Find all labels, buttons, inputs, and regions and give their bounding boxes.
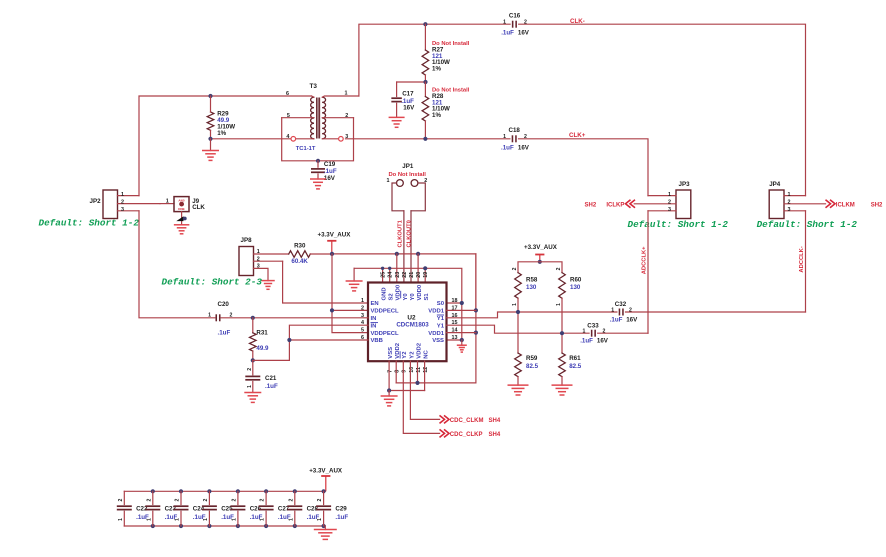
svg-text:2: 2 xyxy=(345,113,348,119)
connector J9 CLK xyxy=(160,197,205,225)
svg-text:JP2: JP2 xyxy=(90,198,102,205)
svg-text:2: 2 xyxy=(118,499,124,502)
svg-text:Y1: Y1 xyxy=(437,323,445,329)
svg-text:R59: R59 xyxy=(526,355,538,362)
capacitor C26 xyxy=(230,491,262,526)
svg-text:9: 9 xyxy=(402,370,408,373)
capacitor C32 xyxy=(610,301,638,324)
svg-text:T3: T3 xyxy=(309,83,317,90)
svg-text:130: 130 xyxy=(526,284,537,291)
svg-text:C21: C21 xyxy=(265,375,277,382)
svg-text:VBB: VBB xyxy=(371,338,383,344)
svg-text:Default: Short 2-3: Default: Short 2-3 xyxy=(162,277,263,288)
svg-text:+3.3V_AUX: +3.3V_AUX xyxy=(318,232,352,239)
net label ADCCLK- xyxy=(799,246,805,272)
label Default: Short 1-2 (JP2) xyxy=(39,218,140,229)
svg-text:5: 5 xyxy=(361,328,364,334)
svg-text:CLK+: CLK+ xyxy=(569,132,586,139)
svg-text:R31: R31 xyxy=(256,330,268,337)
svg-text:S0: S0 xyxy=(437,301,445,307)
svg-text:U2: U2 xyxy=(407,314,416,321)
svg-text:Y2: Y2 xyxy=(409,351,415,359)
svg-text:3: 3 xyxy=(668,207,671,213)
transformer T3 xyxy=(282,83,359,152)
svg-text:ICLKP: ICLKP xyxy=(606,202,624,208)
svg-text:2: 2 xyxy=(146,499,152,502)
svg-text:R58: R58 xyxy=(526,276,538,283)
svg-text:Default: Short 1-2: Default: Short 1-2 xyxy=(757,219,858,230)
svg-text:VSS: VSS xyxy=(432,338,444,344)
svg-text:C20: C20 xyxy=(218,301,230,308)
svg-text:130: 130 xyxy=(570,284,581,291)
svg-text:1: 1 xyxy=(208,313,211,319)
svg-text:C16: C16 xyxy=(509,13,521,20)
node R29 bottom / T3 pin4 xyxy=(208,137,291,151)
svg-text:3: 3 xyxy=(121,207,124,213)
svg-text:S2: S2 xyxy=(389,293,395,301)
svg-text:VDDPECL: VDDPECL xyxy=(371,309,400,315)
svg-text:1: 1 xyxy=(788,192,791,198)
svg-text:C33: C33 xyxy=(587,323,599,330)
svg-text:18: 18 xyxy=(452,298,458,304)
svg-text:1: 1 xyxy=(146,518,152,521)
svg-text:.1uF: .1uF xyxy=(335,514,348,521)
svg-text:CDC_CLKP: CDC_CLKP xyxy=(450,432,483,438)
svg-text:Y0: Y0 xyxy=(410,293,416,301)
svg-text:1: 1 xyxy=(203,518,209,521)
svg-text:VDD2: VDD2 xyxy=(416,342,422,358)
svg-text:VDD0: VDD0 xyxy=(417,284,423,300)
capacitor C29 xyxy=(316,491,348,526)
svg-text:1: 1 xyxy=(387,178,390,184)
svg-text:3: 3 xyxy=(345,134,348,140)
svg-text:7: 7 xyxy=(388,370,394,373)
svg-text:1: 1 xyxy=(175,518,181,521)
svg-text:CDC_CLKM: CDC_CLKM xyxy=(450,418,484,424)
svg-text:.1uF: .1uF xyxy=(218,330,231,337)
capacitor C21 xyxy=(245,360,278,392)
svg-text:C29: C29 xyxy=(335,505,347,512)
wire CLK+ net xyxy=(346,137,649,196)
svg-text:1: 1 xyxy=(288,518,294,521)
off-page arrow ICLKM SH2 xyxy=(826,200,884,209)
wire CDC_CLKP net (U2 pin9) xyxy=(403,361,439,433)
label Default: Short 2-3 (JP8) xyxy=(162,277,263,288)
svg-text:22: 22 xyxy=(402,272,408,278)
svg-text:AN5: AN5 xyxy=(178,199,184,203)
svg-text:DNE: DNE xyxy=(178,207,185,211)
power +3.3V_AUX at cap bank xyxy=(309,468,343,492)
svg-text:1: 1 xyxy=(317,518,323,521)
ground below C17 xyxy=(389,117,405,127)
wire U2 pin17/pin14 VDD1 stubs xyxy=(447,310,476,332)
svg-text:19: 19 xyxy=(423,272,429,278)
wire IN net (C20 to U2 pin3) xyxy=(221,316,368,320)
off-page arrow CDC_CLKM SH4 xyxy=(440,415,501,424)
svg-text:11: 11 xyxy=(416,367,422,373)
svg-text:R30: R30 xyxy=(294,243,306,250)
svg-text:+3.3V_AUX: +3.3V_AUX xyxy=(524,244,558,251)
wire CLK- net (top rail) xyxy=(359,22,806,196)
svg-text:4: 4 xyxy=(286,134,289,140)
svg-text:2: 2 xyxy=(603,329,606,335)
svg-text:8: 8 xyxy=(395,370,401,373)
wire VDD2 net (U2 pins 8,11 to +3.3V) xyxy=(396,254,478,385)
svg-text:IN: IN xyxy=(371,316,377,322)
svg-text:1: 1 xyxy=(118,518,124,521)
svg-text:24: 24 xyxy=(388,272,394,278)
wire primary top net (T3 pin6 / R29 / JP2 pin1) xyxy=(139,94,312,196)
wire ADCCLK- net (JP4 pin3 down) xyxy=(805,211,807,312)
net label CLK- xyxy=(570,18,585,25)
svg-text:2: 2 xyxy=(121,200,124,206)
capacitor C22 xyxy=(117,491,149,526)
svg-text:2: 2 xyxy=(668,200,671,206)
svg-text:C17: C17 xyxy=(402,90,414,97)
capacitor C24 xyxy=(174,491,206,526)
capacitor C16 xyxy=(501,13,530,37)
net label ADCCLK+ xyxy=(642,246,648,274)
ground below R59 xyxy=(508,385,529,395)
svg-text:82.5: 82.5 xyxy=(569,363,582,370)
svg-text:SH2: SH2 xyxy=(871,202,883,208)
jumper JP1 (Do Not Install) xyxy=(387,163,428,211)
resistor R61 xyxy=(559,333,582,385)
svg-text:2: 2 xyxy=(260,499,266,502)
ground below U2 pin7 xyxy=(381,391,398,406)
svg-text:21: 21 xyxy=(409,272,415,278)
svg-text:+3.3V_AUX: +3.3V_AUX xyxy=(309,468,343,475)
wire R58/R60 top rail xyxy=(518,262,562,273)
capacitor C18 xyxy=(501,127,530,151)
capacitor C25 xyxy=(202,491,234,526)
svg-text:.1uF: .1uF xyxy=(501,145,514,152)
svg-text:2: 2 xyxy=(230,313,233,319)
svg-text:JP1: JP1 xyxy=(402,163,414,170)
svg-text:C18: C18 xyxy=(509,127,521,134)
svg-text:NC: NC xyxy=(424,349,430,358)
svg-text:1: 1 xyxy=(345,91,348,97)
svg-text:CLK-: CLK- xyxy=(570,18,585,25)
svg-text:1: 1 xyxy=(668,192,671,198)
svg-text:.1uF: .1uF xyxy=(324,168,337,175)
svg-text:82.5: 82.5 xyxy=(526,363,539,370)
ground below JP8 pin3 xyxy=(261,281,275,290)
off-page arrow ICLKP SH2 xyxy=(585,200,635,209)
svg-text:Y0: Y0 xyxy=(403,293,409,301)
svg-text:1: 1 xyxy=(121,192,124,198)
capacitor C17 xyxy=(391,82,415,117)
svg-text:2: 2 xyxy=(175,499,181,502)
resistor R29 xyxy=(207,96,235,139)
svg-text:Y2: Y2 xyxy=(402,351,408,359)
svg-text:49.9: 49.9 xyxy=(256,345,269,352)
wire T3 center-tap box to C19 xyxy=(282,118,354,163)
svg-text:ADCCLK+: ADCCLK+ xyxy=(642,246,648,274)
wire VDD0 stubs (U2 pins 23,20) xyxy=(397,254,418,283)
svg-text:IN: IN xyxy=(371,323,377,329)
svg-text:20: 20 xyxy=(416,272,422,278)
power +3.3V_AUX at R58/R60 xyxy=(524,244,558,264)
resistor R60 xyxy=(556,267,582,333)
svg-text:16V: 16V xyxy=(518,145,530,152)
svg-text:2: 2 xyxy=(288,499,294,502)
svg-text:1: 1 xyxy=(503,20,506,26)
wire Y1b/C32/ADCCLK- net xyxy=(447,310,806,318)
capacitor C23 xyxy=(145,491,177,526)
resistor R59 xyxy=(515,312,539,385)
svg-text:5: 5 xyxy=(287,113,290,119)
net label CLK+ xyxy=(569,132,586,139)
svg-text:CDCM1803: CDCM1803 xyxy=(396,321,429,328)
svg-text:CLKOUT0: CLKOUT0 xyxy=(406,220,412,247)
svg-text:SH2: SH2 xyxy=(585,202,597,208)
resistor R30 xyxy=(289,243,311,265)
svg-text:2: 2 xyxy=(788,200,791,206)
svg-text:2: 2 xyxy=(247,368,253,371)
ground below C19 xyxy=(310,179,326,189)
svg-text:Y1: Y1 xyxy=(437,316,445,322)
svg-text:JP3: JP3 xyxy=(679,181,691,188)
svg-text:1%: 1% xyxy=(217,130,226,137)
svg-text:1: 1 xyxy=(260,518,266,521)
ground below J9 xyxy=(174,225,190,234)
svg-text:R60: R60 xyxy=(570,276,582,283)
svg-text:1: 1 xyxy=(503,134,506,140)
capacitor C27 xyxy=(259,491,291,526)
wire VSS net (U2 pins 7,12) xyxy=(387,361,425,392)
svg-text:60.4K: 60.4K xyxy=(291,258,308,265)
ground below R29 xyxy=(202,151,219,161)
svg-text:3: 3 xyxy=(788,207,791,213)
svg-text:2: 2 xyxy=(524,134,527,140)
power +3.3V_AUX at R30 xyxy=(318,232,352,254)
svg-text:.1uF: .1uF xyxy=(580,338,593,345)
svg-text:ADCCLK-: ADCCLK- xyxy=(799,246,805,272)
svg-text:VSS: VSS xyxy=(388,347,394,359)
wire ADCCLK+ net (JP3 pin3 down) xyxy=(647,211,649,333)
svg-text:SH4: SH4 xyxy=(489,418,501,424)
svg-text:ICLKM: ICLKM xyxy=(836,202,855,208)
ground at S-net left xyxy=(346,281,363,291)
svg-text:SH4: SH4 xyxy=(489,432,501,438)
svg-text:2: 2 xyxy=(556,267,562,270)
jumper JP3 xyxy=(634,181,691,219)
svg-text:VDD1: VDD1 xyxy=(428,309,444,315)
svg-text:2: 2 xyxy=(629,307,632,313)
wire EN net (JP8 pin2 to U2 pin1) xyxy=(283,261,368,303)
svg-text:C19: C19 xyxy=(324,161,336,168)
off-page arrow CDC_CLKP SH4 xyxy=(440,429,501,438)
ground below C21 xyxy=(244,393,261,403)
wire +3.3V_AUX rail to U2 xyxy=(310,252,476,311)
svg-text:3: 3 xyxy=(257,264,260,270)
svg-text:16V: 16V xyxy=(403,105,415,112)
svg-text:JP8: JP8 xyxy=(241,237,253,244)
svg-text:1: 1 xyxy=(231,518,237,521)
capacitor C28 xyxy=(287,491,319,526)
svg-text:1: 1 xyxy=(361,298,364,304)
label Default: Short 1-2 (JP4) xyxy=(757,219,858,230)
svg-text:12: 12 xyxy=(423,367,429,373)
ground below R61 xyxy=(552,385,573,395)
svg-text:TC1-1T: TC1-1T xyxy=(296,146,316,152)
jumper JP2 xyxy=(90,190,161,219)
wire CLKOUT1 (JP1 to U2 pin22) xyxy=(403,211,405,283)
net label CLKOUT1 xyxy=(398,219,404,247)
svg-text:VDDPECL: VDDPECL xyxy=(371,331,400,337)
capacitor C20 xyxy=(208,301,232,337)
svg-text:VDD1: VDD1 xyxy=(428,331,444,337)
resistor R58 xyxy=(512,267,538,312)
resistor R31 xyxy=(250,318,270,361)
svg-text:R61: R61 xyxy=(569,355,581,362)
wire JP2 pin3 to C20 xyxy=(139,211,215,318)
svg-text:1: 1 xyxy=(583,329,586,335)
svg-text:13: 13 xyxy=(452,335,458,341)
svg-text:1: 1 xyxy=(556,303,562,306)
svg-text:1: 1 xyxy=(512,303,518,306)
svg-text:2: 2 xyxy=(231,499,237,502)
svg-text:2: 2 xyxy=(203,499,209,502)
wire cap bank rails xyxy=(124,489,325,529)
wire Y1/C33/ADCCLK+ net xyxy=(447,325,649,335)
svg-text:CLK: CLK xyxy=(192,204,205,211)
svg-text:25: 25 xyxy=(381,272,387,278)
capacitor C33 xyxy=(580,323,609,345)
ground below cap bank xyxy=(314,530,337,540)
jumper JP8 xyxy=(239,237,289,280)
svg-text:CLKOUT1: CLKOUT1 xyxy=(398,219,404,247)
svg-text:S1: S1 xyxy=(424,293,430,301)
svg-text:16V: 16V xyxy=(597,338,609,345)
wire S1/S2/GND ground net (U2 top) xyxy=(354,266,464,345)
capacitor C19 xyxy=(311,161,337,182)
svg-text:1%: 1% xyxy=(432,66,441,73)
node R27/R28/C17 xyxy=(397,80,428,84)
svg-text:C32: C32 xyxy=(615,301,627,308)
ground below U2 pin13 VSS xyxy=(457,345,467,352)
svg-text:1: 1 xyxy=(247,385,253,388)
IC U2 CDCM1803 xyxy=(361,272,458,373)
svg-text:1: 1 xyxy=(166,198,169,204)
svg-text:EN: EN xyxy=(371,301,379,307)
svg-text:.1uF: .1uF xyxy=(501,30,514,37)
svg-text:.1uF: .1uF xyxy=(265,383,278,390)
svg-text:6: 6 xyxy=(286,91,289,97)
wire CDC_CLKM net (U2 pin10) xyxy=(410,361,439,419)
svg-text:2: 2 xyxy=(524,20,527,26)
wire CLKOUT0 (JP1 to U2 pin21) xyxy=(410,211,412,283)
svg-text:2: 2 xyxy=(512,267,518,270)
svg-text:10: 10 xyxy=(409,367,415,373)
resistor R27 (Do Not Install) xyxy=(422,24,470,82)
svg-text:Default: Short 1-2: Default: Short 1-2 xyxy=(628,219,729,230)
svg-text:2: 2 xyxy=(317,499,323,502)
svg-text:Default: Short 1-2: Default: Short 1-2 xyxy=(39,218,140,229)
label Default: Short 1-2 (JP3) xyxy=(628,219,729,230)
wire INb net (R31/C21 to U2 pin4, VBB) xyxy=(251,325,368,362)
svg-text:GND: GND xyxy=(382,287,388,300)
net label CLKOUT0 xyxy=(406,220,412,247)
svg-text:16V: 16V xyxy=(518,30,530,37)
svg-text:1%: 1% xyxy=(432,112,441,119)
resistor R28 (Do Not Install) xyxy=(422,82,470,139)
svg-text:2: 2 xyxy=(257,256,260,262)
svg-text:16V: 16V xyxy=(626,317,638,324)
svg-text:1: 1 xyxy=(611,307,614,313)
jumper JP4 xyxy=(769,181,825,219)
svg-text:.1uF: .1uF xyxy=(610,317,623,324)
svg-text:2: 2 xyxy=(361,305,364,311)
svg-text:JP4: JP4 xyxy=(769,181,781,188)
svg-text:23: 23 xyxy=(395,272,401,278)
svg-text:1: 1 xyxy=(257,249,260,255)
svg-text:Do Not Install: Do Not Install xyxy=(389,172,427,178)
wire VDDPECL feed (U2 pins 2,5) xyxy=(330,254,368,333)
